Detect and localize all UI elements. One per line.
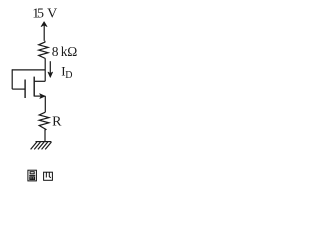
wire drain vertical: [44, 59, 46, 82]
wire gate feedback left: [11, 69, 13, 89]
transistor Q1 channel bar: [33, 77, 35, 97]
node VDD label 15 V: [32, 6, 57, 21]
svg-text:D: D: [65, 70, 72, 81]
label R: [52, 115, 62, 130]
value label 8 kOhm: [52, 44, 77, 59]
transistor Q1 source arrowhead: [40, 94, 45, 99]
caption character Si (four): [44, 172, 53, 180]
ground: [31, 142, 52, 150]
transistor Q1 drain lead: [34, 80, 45, 82]
wire gate feedback top: [12, 69, 45, 71]
label I_D: [61, 63, 72, 81]
wire source vertical: [44, 96, 46, 112]
transistor Q1 source lead: [34, 95, 45, 97]
transistor Q1 gate plate: [24, 80, 26, 99]
arrowhead up at 15 V: [41, 22, 47, 27]
svg-text:R: R: [52, 115, 62, 130]
caption character Tu (figure): [28, 170, 37, 181]
resistor 8 kOhm: [39, 41, 48, 59]
svg-text:V: V: [47, 6, 57, 21]
svg-text:Ω: Ω: [67, 44, 77, 59]
wire to ground: [44, 129, 46, 141]
svg-text:8: 8: [52, 44, 59, 59]
current arrow I_D: [48, 61, 53, 77]
wire arrow to 15 V supply: [43, 25, 45, 41]
resistor R: [39, 112, 49, 130]
wire gate lead: [12, 88, 24, 90]
svg-text:5: 5: [37, 6, 44, 21]
